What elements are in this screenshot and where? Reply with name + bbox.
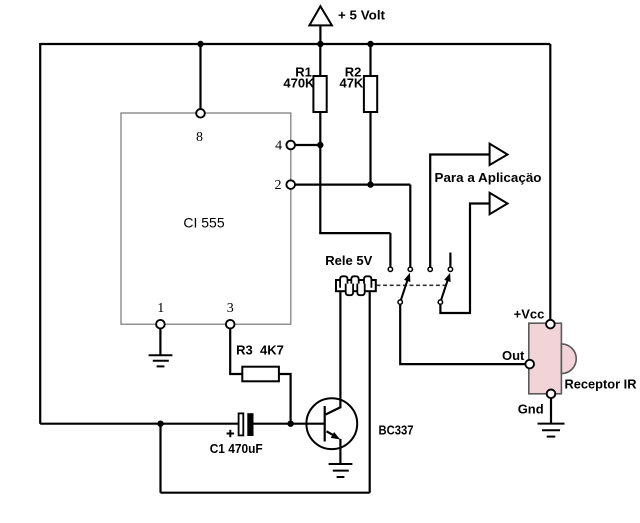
node: junction R1 / pin4 wire [317,142,323,148]
IR receiver body [529,323,562,394]
switch contact D [448,267,452,271]
wire: pin 2 to x410 [295,184,410,186]
+5V supply triangle symbol [309,6,332,25]
resistor R2 body [364,76,377,112]
wire: down to switch contact A [389,233,391,267]
svg-text:BC337: BC337 [379,422,414,437]
IR pin +Vcc [546,320,555,329]
switch contact C [428,267,432,271]
transistor Q1 emitter arrowhead [331,432,341,440]
wire: bottom horizontal from left rail to C1 [40,423,239,425]
svg-text:Receptor IR: Receptor IR [565,376,638,391]
wire: Gnd pin down to ground [550,398,552,423]
svg-text:470K: 470K [283,76,315,91]
node: junction bottom wire [157,421,163,427]
ground (IR receiver) [538,424,565,437]
transistor Q1 collector diagonal [326,407,341,414]
svg-text:4: 4 [275,139,282,154]
op-amp buffer 1 triangle [490,144,508,165]
node: junction pin8 on rail [197,41,203,47]
wire: horizontal y233 to switch A [319,232,390,234]
switch S2 moving contact pivot [438,300,442,304]
IR pin Out [525,360,534,369]
label: plus sign of C1 [227,430,234,437]
relay coil bottom loop 2 [357,284,364,296]
switch contact A [388,267,392,271]
ground (pin 1) [149,355,173,366]
wire: R1 bottom to pin4 junction and down to y233 [319,112,321,233]
transistor Q1 circle [306,398,357,449]
wire: emitter down to ground [339,439,341,464]
node: junction +5V on rail [317,41,323,47]
IR pin Gnd [547,390,556,399]
wire: R3 right to base junction [279,374,291,424]
pin 8 terminal [196,109,205,118]
ground (emitter) [329,464,353,477]
switch contact B [408,267,412,271]
wire: R2 bottom down to pin2 wire [369,112,371,185]
wire: junction down to bottom rail [159,424,161,493]
node: junction R2 on rail [367,41,373,47]
op-amp buffer 2 triangle [490,193,508,214]
wire: relay actuation dashed link [377,284,446,286]
svg-text:+Vcc: +Vcc [514,307,545,322]
svg-text:47K: 47K [339,76,363,91]
svg-text:+ 5 Volt: + 5 Volt [338,8,386,23]
transistor Q1 base bar [324,406,326,442]
capacitor C1 plate + (filled) [247,413,253,436]
wire: down to switch contact B [409,185,411,267]
switch S1 lever [401,280,408,300]
svg-text:Rele 5V: Rele 5V [325,253,372,268]
switch S1 lever arrowhead [404,273,410,282]
wire: left rail down [39,43,41,424]
svg-text:CI 555: CI 555 [183,214,224,230]
relay coil top loop 1 [340,276,347,288]
wire: top +5V rail [40,43,550,45]
svg-text:1: 1 [157,301,164,316]
wire: bottom rail [161,492,370,494]
svg-text:2: 2 [275,178,282,193]
switch S2 lever arrowhead [444,273,450,282]
switch S2 lever [441,280,448,300]
svg-text:3: 3 [227,301,234,316]
resistor R3 body [242,367,279,382]
wire: rail to R1 top [319,44,321,76]
transistor Q1 emitter diagonal [327,431,335,435]
svg-text:Para a Aplicaçäo: Para a Aplicaçäo [435,170,542,185]
wire: rail down to pin 8 [199,44,201,109]
op-amp U1 box CI 555 [121,113,291,324]
wire: relay right pin down to bottom rail [369,291,371,493]
wire: C1 to transistor base [254,423,325,425]
wire: rail to R2 top [369,44,371,76]
pin 1 terminal [156,320,165,329]
wire: S2 pivot down right up to buffer 2 [440,204,489,314]
wire: +5V stem [319,25,321,44]
wire: pin 3 down and right to R3 [230,329,242,375]
node: junction R3 / base wire [287,421,293,427]
relay K1 coil rectangle [336,280,376,291]
pin 2 terminal [286,180,295,189]
svg-text:Out: Out [502,348,525,363]
svg-text:Gnd: Gnd [518,402,544,417]
relay coil bottom loop 1 [346,284,353,296]
wire: S1 pivot down and right to IR Out [400,304,525,364]
switch S1 moving contact pivot [398,300,402,304]
wire: stub above contact D [449,253,451,268]
wire: contact C up and right to buffer 1 [430,155,489,268]
svg-text:C1 470uF: C1 470uF [210,441,263,456]
relay coil top loop 2 [351,276,358,288]
wire: pin 4 to R1 junction [295,144,320,146]
capacitor C1 plate - (outline) [239,413,244,435]
pin 3 terminal [226,320,235,329]
wire: pin 1 down to ground [159,329,161,356]
relay coil top loop 3 [364,276,371,288]
resistor R1 body [313,76,326,112]
pin 4 terminal [286,141,295,150]
svg-text:8: 8 [196,130,203,145]
wire: collector up to relay coil [339,291,341,408]
svg-text:R3 4K7: R3 4K7 [236,342,284,357]
node: junction R2 / pin2 wire [367,181,373,187]
IR receiver lens bump [561,344,576,374]
wire: right rail down to IR +Vcc [549,44,551,320]
